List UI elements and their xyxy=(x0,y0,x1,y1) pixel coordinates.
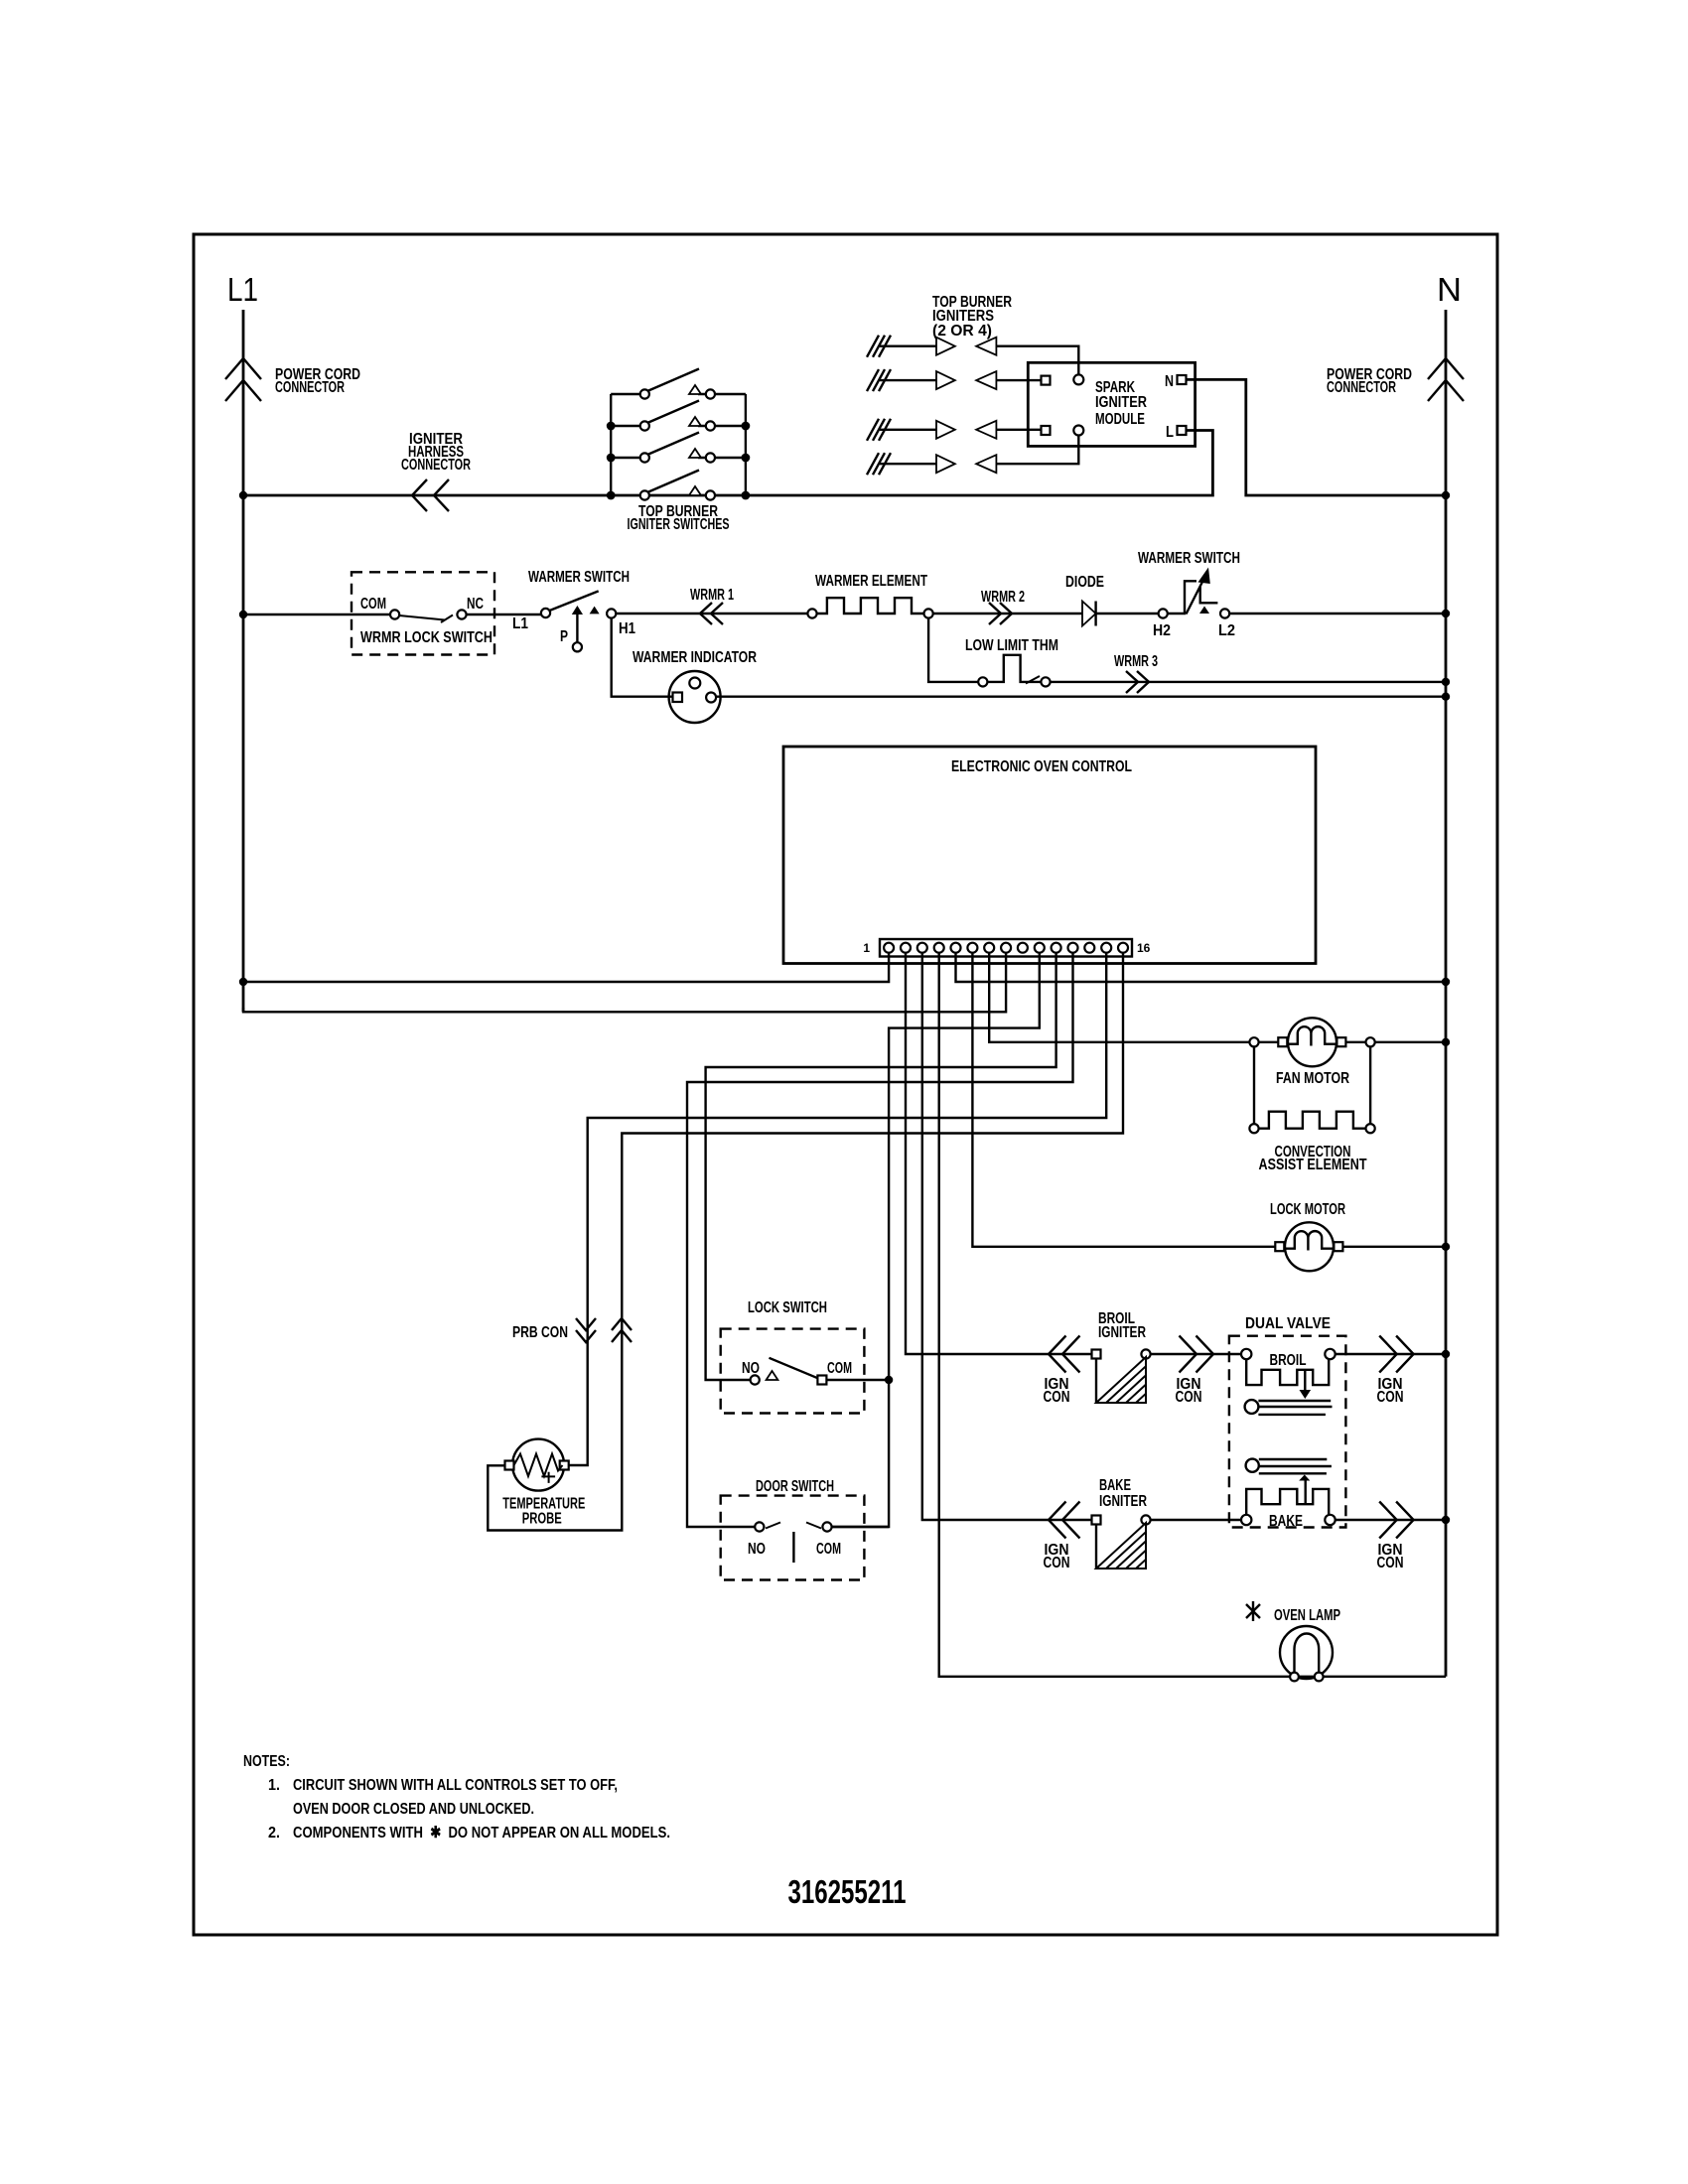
wire L2 to N xyxy=(1229,613,1446,614)
warmer element xyxy=(807,573,932,618)
junction T1-L1 xyxy=(239,978,247,986)
connector IGN CON bake right xyxy=(1379,1502,1413,1539)
fan motor M1 xyxy=(1249,1018,1446,1087)
bake igniter E2 xyxy=(1092,1515,1151,1569)
wire H1 branch down to indicator xyxy=(612,618,672,697)
svg-text:CON: CON xyxy=(1377,1555,1404,1571)
svg-text:MODULE: MODULE xyxy=(1095,411,1145,428)
broil coil xyxy=(1241,1349,1251,1359)
svg-text:CONNECTOR: CONNECTOR xyxy=(1327,379,1396,396)
svg-text:CONNECTOR: CONNECTOR xyxy=(275,379,345,396)
power cord connector left xyxy=(225,358,261,401)
svg-text:H1: H1 xyxy=(619,620,635,637)
wire left rail xyxy=(610,394,612,495)
svg-text:CON: CON xyxy=(1044,1389,1070,1406)
oven lamp DS1 xyxy=(1246,1601,1340,1681)
svg-text:PRB CON: PRB CON xyxy=(512,1324,568,1341)
junction L1-bus xyxy=(239,491,247,499)
connector WRMR 2 xyxy=(989,603,1012,624)
broil igniter E1 xyxy=(1092,1349,1151,1403)
svg-text:NO: NO xyxy=(748,1541,766,1558)
junction L1 warmer row xyxy=(239,611,247,618)
wire terminal 4 to oven lamp line xyxy=(939,953,1446,1677)
svg-text:H2: H2 xyxy=(1153,622,1171,639)
junction N low limit row xyxy=(1442,678,1450,686)
EOC terminal strip xyxy=(863,939,1150,957)
broil valve slider xyxy=(1245,1400,1259,1414)
wire N vertical rail xyxy=(1445,310,1448,1677)
svg-text:LOW LIMIT THM: LOW LIMIT THM xyxy=(965,637,1058,654)
wire NC to warmer switch xyxy=(467,614,541,615)
wire element to diode xyxy=(933,613,1082,614)
bake coil xyxy=(1304,1480,1306,1504)
convection assist element xyxy=(1249,1046,1374,1173)
svg-text:CON: CON xyxy=(1377,1389,1404,1406)
lock motor M2 xyxy=(1270,1201,1446,1271)
top burner igniter row 1 xyxy=(867,336,1078,374)
PRB CON connector xyxy=(512,1318,632,1342)
wire terminal 8 to L1 rail bottom xyxy=(243,953,1006,1013)
wire bake igniter to valve xyxy=(1151,1519,1242,1521)
svg-text:L2: L2 xyxy=(1218,622,1235,639)
svg-text:P: P xyxy=(560,628,568,645)
switch row 2 xyxy=(611,425,746,427)
svg-text:IGNITER: IGNITER xyxy=(1098,1324,1146,1341)
switch row 3 xyxy=(611,457,746,459)
wire terminal 11 to lock switch NO xyxy=(706,953,1056,1380)
svg-text:OVEN LAMP: OVEN LAMP xyxy=(1274,1607,1340,1624)
svg-text:NO: NO xyxy=(742,1360,760,1377)
junction N-bus xyxy=(1442,491,1450,499)
svg-text:L1: L1 xyxy=(512,615,528,632)
wire terminal 6 to lock motor xyxy=(972,953,1276,1247)
svg-text:WARMER INDICATOR: WARMER INDICATOR xyxy=(633,649,757,666)
svg-text:L: L xyxy=(1166,424,1174,441)
wire terminal 15 to probe loop xyxy=(488,953,1123,1531)
svg-text:WRMR 2: WRMR 2 xyxy=(981,589,1025,606)
warmer switch right xyxy=(1138,550,1240,639)
wire terminal 5 to N rail xyxy=(956,953,1447,982)
connector IGN CON broil right xyxy=(1379,1336,1413,1373)
svg-text:WARMER SWITCH: WARMER SWITCH xyxy=(528,569,630,586)
wire terminal 10 to lock/door COM xyxy=(832,953,1040,1527)
svg-text:1.: 1. xyxy=(268,1777,280,1794)
wire terminal 3 to bake feed xyxy=(922,953,1091,1520)
svg-text:(2 OR 4): (2 OR 4) xyxy=(932,323,992,340)
junction N indicator row xyxy=(1442,693,1450,701)
svg-text:WARMER ELEMENT: WARMER ELEMENT xyxy=(815,573,927,590)
svg-text:IGNITER SWITCHES: IGNITER SWITCHES xyxy=(628,516,730,533)
connector WRMR 3 xyxy=(1126,671,1149,693)
wrmr lock switch box xyxy=(352,572,494,654)
igniter harness connector xyxy=(412,479,449,511)
svg-text:ASSIST ELEMENT: ASSIST ELEMENT xyxy=(1259,1157,1367,1173)
svg-text:FAN MOTOR: FAN MOTOR xyxy=(1276,1070,1349,1087)
svg-text:2.: 2. xyxy=(268,1825,280,1842)
svg-text:LOCK MOTOR: LOCK MOTOR xyxy=(1270,1201,1345,1218)
wire terminal 7 to fan motor xyxy=(989,953,1279,1042)
junction lock COM xyxy=(885,1376,893,1384)
door switch S2 xyxy=(721,1478,889,1580)
dual valve xyxy=(1229,1315,1346,1530)
svg-text:WRMR LOCK SWITCH: WRMR LOCK SWITCH xyxy=(360,629,492,646)
svg-text:N: N xyxy=(1437,271,1462,308)
svg-text:WARMER SWITCH: WARMER SWITCH xyxy=(1138,550,1240,567)
svg-text:NOTES:: NOTES: xyxy=(243,1753,290,1770)
svg-text:OVEN DOOR CLOSED AND UNLOCKED.: OVEN DOOR CLOSED AND UNLOCKED. xyxy=(293,1801,534,1818)
wire N top bus from spark module xyxy=(1186,379,1446,495)
top burner igniter switches bank xyxy=(607,369,751,534)
svg-text:WRMR 1: WRMR 1 xyxy=(690,587,734,604)
svg-text:COM: COM xyxy=(816,1541,841,1558)
border frame xyxy=(194,234,1497,1935)
svg-text:DIODE: DIODE xyxy=(1065,574,1104,591)
svg-text:L1: L1 xyxy=(227,271,258,308)
svg-text:PROBE: PROBE xyxy=(522,1511,562,1528)
wire element branch down to low limit xyxy=(928,618,978,682)
top burner igniter row 3 xyxy=(867,419,1042,441)
wire diode to H2 xyxy=(1096,613,1159,614)
svg-text:ELECTRONIC OVEN CONTROL: ELECTRONIC OVEN CONTROL xyxy=(951,758,1132,775)
svg-text:16: 16 xyxy=(1137,941,1151,955)
wire valve broil to N xyxy=(1335,1353,1446,1355)
wire valve bake to N xyxy=(1335,1519,1446,1521)
svg-text:DUAL VALVE: DUAL VALVE xyxy=(1245,1315,1331,1332)
top burner igniter row 2 xyxy=(867,369,1042,391)
junction bake-N xyxy=(1442,1516,1450,1524)
electronic oven control box xyxy=(783,747,1316,964)
wire terminal 14 to probe xyxy=(569,953,1106,1465)
junction fan-N xyxy=(1442,1038,1450,1046)
junction broil-N xyxy=(1442,1350,1450,1358)
svg-text:316255211: 316255211 xyxy=(788,1873,907,1910)
connector IGN CON broil left xyxy=(1049,1336,1080,1373)
wire terminal 2 to broil feed xyxy=(906,953,1091,1354)
svg-text:DOOR SWITCH: DOOR SWITCH xyxy=(756,1478,834,1495)
connector IGN CON bake left xyxy=(1049,1502,1080,1539)
temperature probe RT1 xyxy=(502,1439,585,1528)
connector WRMR 1 xyxy=(700,603,723,624)
wire L1 top bus xyxy=(243,431,1212,496)
svg-text:CON: CON xyxy=(1044,1555,1070,1571)
bake valve slider xyxy=(1246,1459,1259,1472)
svg-text:COMPONENTS WITH ✱ DO NOT APP: COMPONENTS WITH ✱ DO NOT APPEAR ON ALL M… xyxy=(293,1825,670,1842)
wire terminal 1 to L1 rail xyxy=(243,953,889,982)
svg-text:NC: NC xyxy=(467,596,484,613)
connector IGN CON broil mid xyxy=(1180,1336,1214,1373)
wire L1 vertical rail xyxy=(242,310,245,1012)
power cord connector right xyxy=(1428,358,1464,401)
switch row 4 on bus xyxy=(647,471,699,493)
svg-text:1: 1 xyxy=(863,941,870,955)
svg-text:IGNITER: IGNITER xyxy=(1099,1493,1147,1510)
svg-text:COM: COM xyxy=(360,596,386,613)
wire right rail xyxy=(745,394,747,495)
switch row 1 xyxy=(611,393,746,395)
svg-text:CIRCUIT SHOWN WITH ALL CONTROL: CIRCUIT SHOWN WITH ALL CONTROLS SET TO O… xyxy=(293,1777,618,1794)
wire H1 to warmer element xyxy=(616,613,807,614)
svg-text:CON: CON xyxy=(1176,1389,1202,1406)
svg-text:BROIL: BROIL xyxy=(1270,1352,1307,1369)
warmer switch left xyxy=(512,569,635,651)
wire warmer row from L1 xyxy=(243,614,390,615)
top burner igniter row 4 xyxy=(867,436,1078,476)
wire terminal 12 to door switch NO xyxy=(687,953,1073,1527)
wire broil igniter to valve xyxy=(1151,1353,1242,1355)
svg-text:LOCK SWITCH: LOCK SWITCH xyxy=(748,1299,827,1316)
svg-text:WRMR 3: WRMR 3 xyxy=(1114,653,1158,670)
spark igniter module U1 xyxy=(1028,362,1195,446)
wire low limit to N xyxy=(1051,681,1446,683)
junction T5-N xyxy=(1442,978,1450,986)
svg-text:CONNECTOR: CONNECTOR xyxy=(401,457,471,474)
warmer indicator lamp xyxy=(633,649,757,723)
low limit thermostat xyxy=(965,637,1058,687)
svg-text:N: N xyxy=(1165,373,1174,390)
junction N warmer row xyxy=(1442,610,1450,617)
diode xyxy=(1065,574,1104,626)
svg-text:IGNITER: IGNITER xyxy=(1095,394,1147,411)
junction lock motor-N xyxy=(1442,1243,1450,1251)
svg-text:BAKE: BAKE xyxy=(1099,1477,1131,1494)
lock switch S1 xyxy=(721,1299,889,1414)
svg-text:COM: COM xyxy=(827,1360,852,1377)
wire indicator to N xyxy=(717,696,1446,698)
svg-text:BAKE: BAKE xyxy=(1269,1513,1303,1530)
notes xyxy=(243,1753,670,1842)
